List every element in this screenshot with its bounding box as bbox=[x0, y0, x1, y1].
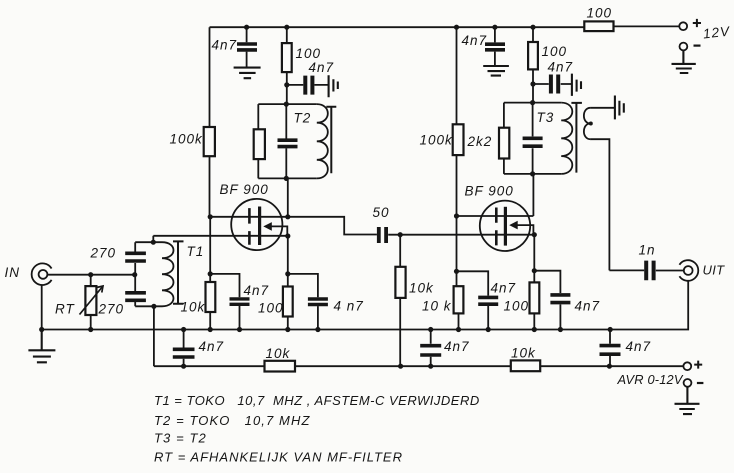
svg-text:IN: IN bbox=[5, 265, 21, 280]
svg-text:100k: 100k bbox=[170, 132, 204, 147]
wire T2 box bbox=[258, 104, 317, 178]
svg-text:10k: 10k bbox=[181, 300, 206, 315]
svg-text:4n7: 4n7 bbox=[199, 339, 225, 354]
svg-text:2k2: 2k2 bbox=[467, 134, 493, 149]
resistor 100 (stage2 drain feed) bbox=[528, 27, 567, 102]
svg-text:BF 900: BF 900 bbox=[220, 182, 269, 197]
node top rail / 100 stage2 bbox=[530, 25, 535, 30]
svg-text:10k: 10k bbox=[409, 281, 434, 296]
svg-text:UIT: UIT bbox=[703, 263, 726, 278]
transistor Q2 substrate arrow bbox=[509, 221, 533, 235]
resistor 10k (stage1 G2 to ground) bbox=[181, 282, 216, 315]
capacitor 4n7 (AVR filter left) bbox=[173, 330, 224, 367]
node AVR rail 4n7 mid bbox=[428, 364, 433, 369]
capacitor 4n7 (stage2 G2 bypass) bbox=[457, 271, 517, 329]
svg-text:4n7: 4n7 bbox=[444, 339, 470, 354]
resistor 100 (supply decoupling) bbox=[584, 6, 613, 32]
node stage1 G2 lower bbox=[208, 271, 213, 276]
node T1 bottom bbox=[151, 304, 156, 309]
node T1 top bbox=[151, 240, 156, 245]
wire Q2 gate2/drain row bbox=[457, 215, 534, 217]
svg-text:4n7: 4n7 bbox=[575, 299, 601, 314]
label T1 bbox=[187, 244, 205, 259]
node top rail / 4n7 stage1 bbox=[244, 25, 249, 30]
resistor 10k (AVR to stage2) bbox=[511, 346, 540, 372]
ground (shield, stage1 rotated) bbox=[329, 75, 338, 97]
svg-text:100: 100 bbox=[587, 6, 613, 21]
ground (stage2 rail 4n7) bbox=[483, 66, 509, 76]
label IN bbox=[5, 265, 21, 280]
wire IN to T1 tap bbox=[47, 274, 134, 276]
svg-text:100k: 100k bbox=[420, 133, 454, 148]
transistor Q2 channel bar bbox=[504, 207, 507, 246]
wire secondary bottom to 1n bbox=[590, 139, 644, 270]
node Q1 source bbox=[285, 233, 290, 238]
capacitor 270 (T1 upper) bbox=[90, 242, 146, 275]
node ground rail / UIT branch bbox=[608, 327, 613, 332]
wire AVR rail bbox=[154, 365, 683, 367]
node ground rail 4n7 stage2 G2 bbox=[486, 327, 491, 332]
node AVR rail 10k G1 bbox=[398, 364, 403, 369]
node Q1 drain bbox=[285, 214, 290, 219]
label T3 note bbox=[154, 431, 207, 446]
wire Q1 gate2/drain row bbox=[210, 217, 377, 235]
capacitor 1n (output coupling) bbox=[639, 243, 656, 281]
resistor 10k (AVR to stage1) bbox=[265, 346, 296, 372]
transistor Q1 BF900 circle bbox=[231, 199, 282, 250]
svg-text:10k: 10k bbox=[511, 346, 536, 361]
inductor T3 bbox=[561, 103, 572, 174]
wire 50 cap to Q2 gate1 bbox=[388, 234, 534, 236]
wire Q1 source down bbox=[287, 236, 289, 274]
resistor T2 damping (unlabeled) bbox=[254, 129, 265, 159]
label T2 bbox=[294, 111, 312, 126]
svg-text:4n7: 4n7 bbox=[626, 339, 652, 354]
terminal 12V minus bbox=[680, 43, 701, 51]
svg-text:RT: RT bbox=[55, 302, 76, 317]
node T2 bottom bbox=[284, 176, 289, 181]
svg-text:4n7: 4n7 bbox=[244, 283, 270, 298]
ground (IN) bbox=[28, 330, 55, 363]
core T2 bbox=[326, 107, 336, 174]
node ground rail 10k stage2 bbox=[456, 327, 461, 332]
wire ground rail bbox=[42, 329, 611, 331]
resistor 100k (stage2 G2 bias) bbox=[420, 27, 464, 216]
transistor Q1 substrate arrow bbox=[263, 222, 287, 234]
node ground rail 10k stage1 bbox=[208, 327, 213, 332]
svg-text:100: 100 bbox=[258, 301, 284, 316]
svg-text:270: 270 bbox=[90, 246, 117, 261]
wire Q2 drain up to T3 bbox=[532, 174, 534, 216]
wire Q2 source down bbox=[533, 235, 535, 271]
capacitor T2 internal bbox=[278, 140, 298, 146]
ground (shield, stage2 rotated) bbox=[572, 74, 581, 96]
node Q2 gate2 bbox=[454, 213, 459, 218]
svg-text:T3 = T2: T3 = T2 bbox=[154, 431, 207, 446]
node G1 bias stage2 bbox=[398, 232, 403, 237]
svg-text:4n7: 4n7 bbox=[548, 60, 574, 75]
capacitor 4n7 (stage1 rail decoupling) bbox=[212, 27, 258, 67]
svg-text:4n7: 4n7 bbox=[212, 38, 238, 53]
node stage2 source lower bbox=[532, 268, 537, 273]
capacitor 270 (T1 lower) bbox=[98, 275, 146, 317]
terminal AVR plus bbox=[683, 361, 702, 371]
capacitor 4n7 (stage1 G2 bypass) bbox=[210, 274, 269, 330]
node top rail / 4n7 stage2 bbox=[492, 25, 497, 30]
svg-text:4 n7: 4 n7 bbox=[334, 299, 364, 314]
ground (12V minus) bbox=[672, 51, 696, 74]
svg-text:T3: T3 bbox=[537, 110, 555, 125]
node IN ground bbox=[39, 327, 44, 332]
wire T1 top bbox=[135, 241, 162, 243]
label T1 note bbox=[154, 393, 480, 408]
label 12V bbox=[702, 24, 731, 42]
node T1 tap bbox=[132, 272, 137, 277]
inductor T1 bbox=[162, 242, 173, 306]
inductor T2 bbox=[317, 104, 328, 178]
transistor Q1 gate bars bbox=[248, 208, 251, 245]
capacitor 50 (interstage coupling) bbox=[373, 205, 390, 243]
svg-text:10 k: 10 k bbox=[422, 299, 452, 314]
wire Q1 drain up to T2 bbox=[287, 178, 289, 216]
core T3 bbox=[571, 103, 582, 173]
wire T3 box bbox=[504, 103, 561, 174]
node top rail / 100k stage2 bbox=[454, 25, 459, 30]
wire secondary top to shield bbox=[590, 107, 614, 109]
transistor Q2 gate bars bbox=[495, 208, 498, 246]
node RT bottom bbox=[88, 327, 93, 332]
node AVR rail 4n7 left bbox=[181, 364, 186, 369]
resistor 100 (stage1 source) bbox=[258, 274, 293, 330]
svg-text:T2 = TOKO 10,7 MHZ: T2 = TOKO 10,7 MHZ bbox=[154, 413, 311, 428]
terminal AVR minus bbox=[684, 379, 704, 387]
capacitor 4n7 (stage2 neutralization to shield) bbox=[533, 60, 573, 94]
label RT note bbox=[154, 450, 403, 465]
resistor 2k2 (T3 damping) bbox=[467, 128, 510, 159]
transistor Q1 channel bar bbox=[258, 207, 261, 246]
label T2 note bbox=[154, 413, 311, 428]
svg-text:100: 100 bbox=[296, 46, 322, 61]
svg-text:BF 900: BF 900 bbox=[465, 184, 514, 199]
capacitor 4n7 (stage2 source bypass) bbox=[534, 271, 600, 330]
resistor 100 (stage2 source) bbox=[504, 271, 540, 330]
svg-text:RT = AFHANKELIJK VAN MF-FILTER: RT = AFHANKELIJK VAN MF-FILTER bbox=[154, 450, 403, 465]
node T2 top bbox=[284, 102, 289, 107]
node ground rail 4n7 stage1 src bbox=[315, 327, 320, 332]
connector IN bbox=[32, 263, 52, 285]
ground (stage1 rail 4n7) bbox=[234, 68, 261, 79]
wire IN ground drop bbox=[41, 285, 43, 330]
capacitor 4n7 (AVR filter right) bbox=[600, 330, 652, 367]
node T3 top bbox=[530, 100, 535, 105]
capacitor 4n7 (stage1 source bypass) bbox=[288, 274, 364, 330]
connector UIT bbox=[679, 260, 698, 281]
node ground rail 100 stage2 bbox=[532, 327, 537, 332]
resistor 100 (stage1 drain feed) bbox=[282, 27, 321, 104]
svg-text:4n7: 4n7 bbox=[462, 33, 488, 48]
svg-text:100: 100 bbox=[542, 44, 568, 59]
node ground rail 4n7 stage2 src bbox=[558, 327, 563, 332]
svg-text:4n7: 4n7 bbox=[491, 281, 517, 296]
node ground rail 4n7 left bbox=[181, 327, 186, 332]
capacitor T3 internal bbox=[523, 138, 543, 146]
node ground rail 100 stage1 bbox=[285, 327, 290, 332]
node AVR rail 4n7 right bbox=[607, 364, 612, 369]
node stage2 drain feed / 4n7 tap bbox=[530, 81, 535, 86]
capacitor 4n7 (stage1 neutralization to shield) bbox=[287, 60, 334, 95]
node top rail / 100 stage1 bbox=[284, 25, 289, 30]
label BF900 Q2 bbox=[465, 184, 514, 199]
node ground rail 4n7 mid bbox=[428, 327, 433, 332]
svg-text:T1 = TOKO 10,7 MHZ , AFSTEM: T1 = TOKO 10,7 MHZ , AFSTEM-C VERWIJDERD bbox=[154, 393, 480, 408]
node stage2 G2 lower bbox=[454, 269, 459, 274]
resistor 100k (stage1 G2 bias) bbox=[170, 27, 215, 217]
inductor T3 secondary bbox=[584, 108, 591, 139]
resistor 10k (stage2 G2 to ground) bbox=[422, 286, 463, 313]
svg-text:100: 100 bbox=[504, 299, 530, 314]
wire Q1 gate1 row bbox=[153, 236, 287, 242]
label BF900 Q1 bbox=[220, 182, 269, 197]
svg-text:T1: T1 bbox=[187, 244, 205, 259]
node stage1 drain feed / 4n7 tap bbox=[284, 82, 289, 87]
node T3 bottom bbox=[530, 171, 535, 176]
capacitor 4n7 (stage2 rail decoupling) bbox=[462, 27, 506, 66]
svg-text:4n7: 4n7 bbox=[309, 60, 335, 75]
label T3 bbox=[537, 110, 555, 125]
svg-text:T2: T2 bbox=[294, 111, 312, 126]
wire +12V top rail bbox=[210, 25, 680, 28]
node stage1 source lower bbox=[285, 271, 290, 276]
ground (AVR minus) bbox=[675, 387, 700, 414]
wire 1n to UIT bbox=[656, 270, 684, 272]
wire UIT shell to ground rail bbox=[610, 281, 688, 330]
svg-text:12V: 12V bbox=[702, 24, 731, 42]
label UIT bbox=[703, 263, 726, 278]
svg-text:270: 270 bbox=[98, 302, 125, 317]
svg-text:1n: 1n bbox=[639, 243, 656, 258]
label AVR 0-12V bbox=[617, 372, 684, 387]
wire stage1 G2 column lower bbox=[209, 217, 211, 330]
transistor Q2 BF900 circle bbox=[480, 201, 530, 251]
node T3 secondary pinch bbox=[589, 122, 593, 126]
ground (secondary shield, rotated) bbox=[615, 96, 624, 120]
svg-text:10k: 10k bbox=[266, 346, 291, 361]
capacitor 4n7 (AVR filter mid) bbox=[420, 330, 469, 367]
node RT top bbox=[88, 272, 93, 277]
node Q2 source bbox=[532, 232, 537, 237]
svg-text:AVR 0-12V: AVR 0-12V bbox=[617, 372, 684, 387]
node ground rail 4n7 stage1 G2 bbox=[237, 327, 242, 332]
wire T1 bottom drop to AVR rail bbox=[153, 306, 155, 366]
core T1 bbox=[173, 241, 184, 303]
wire T1 bottom bbox=[135, 305, 162, 307]
terminal +12V plus bbox=[679, 19, 701, 30]
svg-text:50: 50 bbox=[373, 205, 390, 220]
node Q1 gate2 bbox=[208, 214, 213, 219]
resistor RT (variable) bbox=[55, 275, 103, 330]
resistor 10k (stage2 G1 bias from AVR) bbox=[395, 235, 434, 367]
wire stage2 G2 column lower bbox=[457, 216, 459, 330]
